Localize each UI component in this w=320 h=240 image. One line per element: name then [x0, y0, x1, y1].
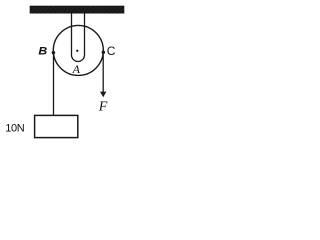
axle dot (center) [76, 50, 78, 52]
svg-text:10N: 10N [5, 123, 24, 135]
node B dot [52, 51, 56, 55]
arrowhead of F [100, 92, 106, 98]
svg-text:B: B [38, 46, 47, 58]
left rope (from B down to the weight) [53, 53, 55, 116]
node C dot [102, 51, 106, 55]
weight box (10 N block) [35, 115, 78, 137]
right rope with force arrow F [102, 52, 104, 92]
ceiling (hatched fixed support) [30, 6, 124, 13]
pulley support yoke (hanger from ceiling to axle) [72, 13, 85, 62]
svg-text:C: C [107, 44, 116, 58]
pulley wheel [53, 25, 103, 75]
svg-text:F: F [98, 99, 108, 114]
svg-text:A: A [72, 62, 81, 76]
